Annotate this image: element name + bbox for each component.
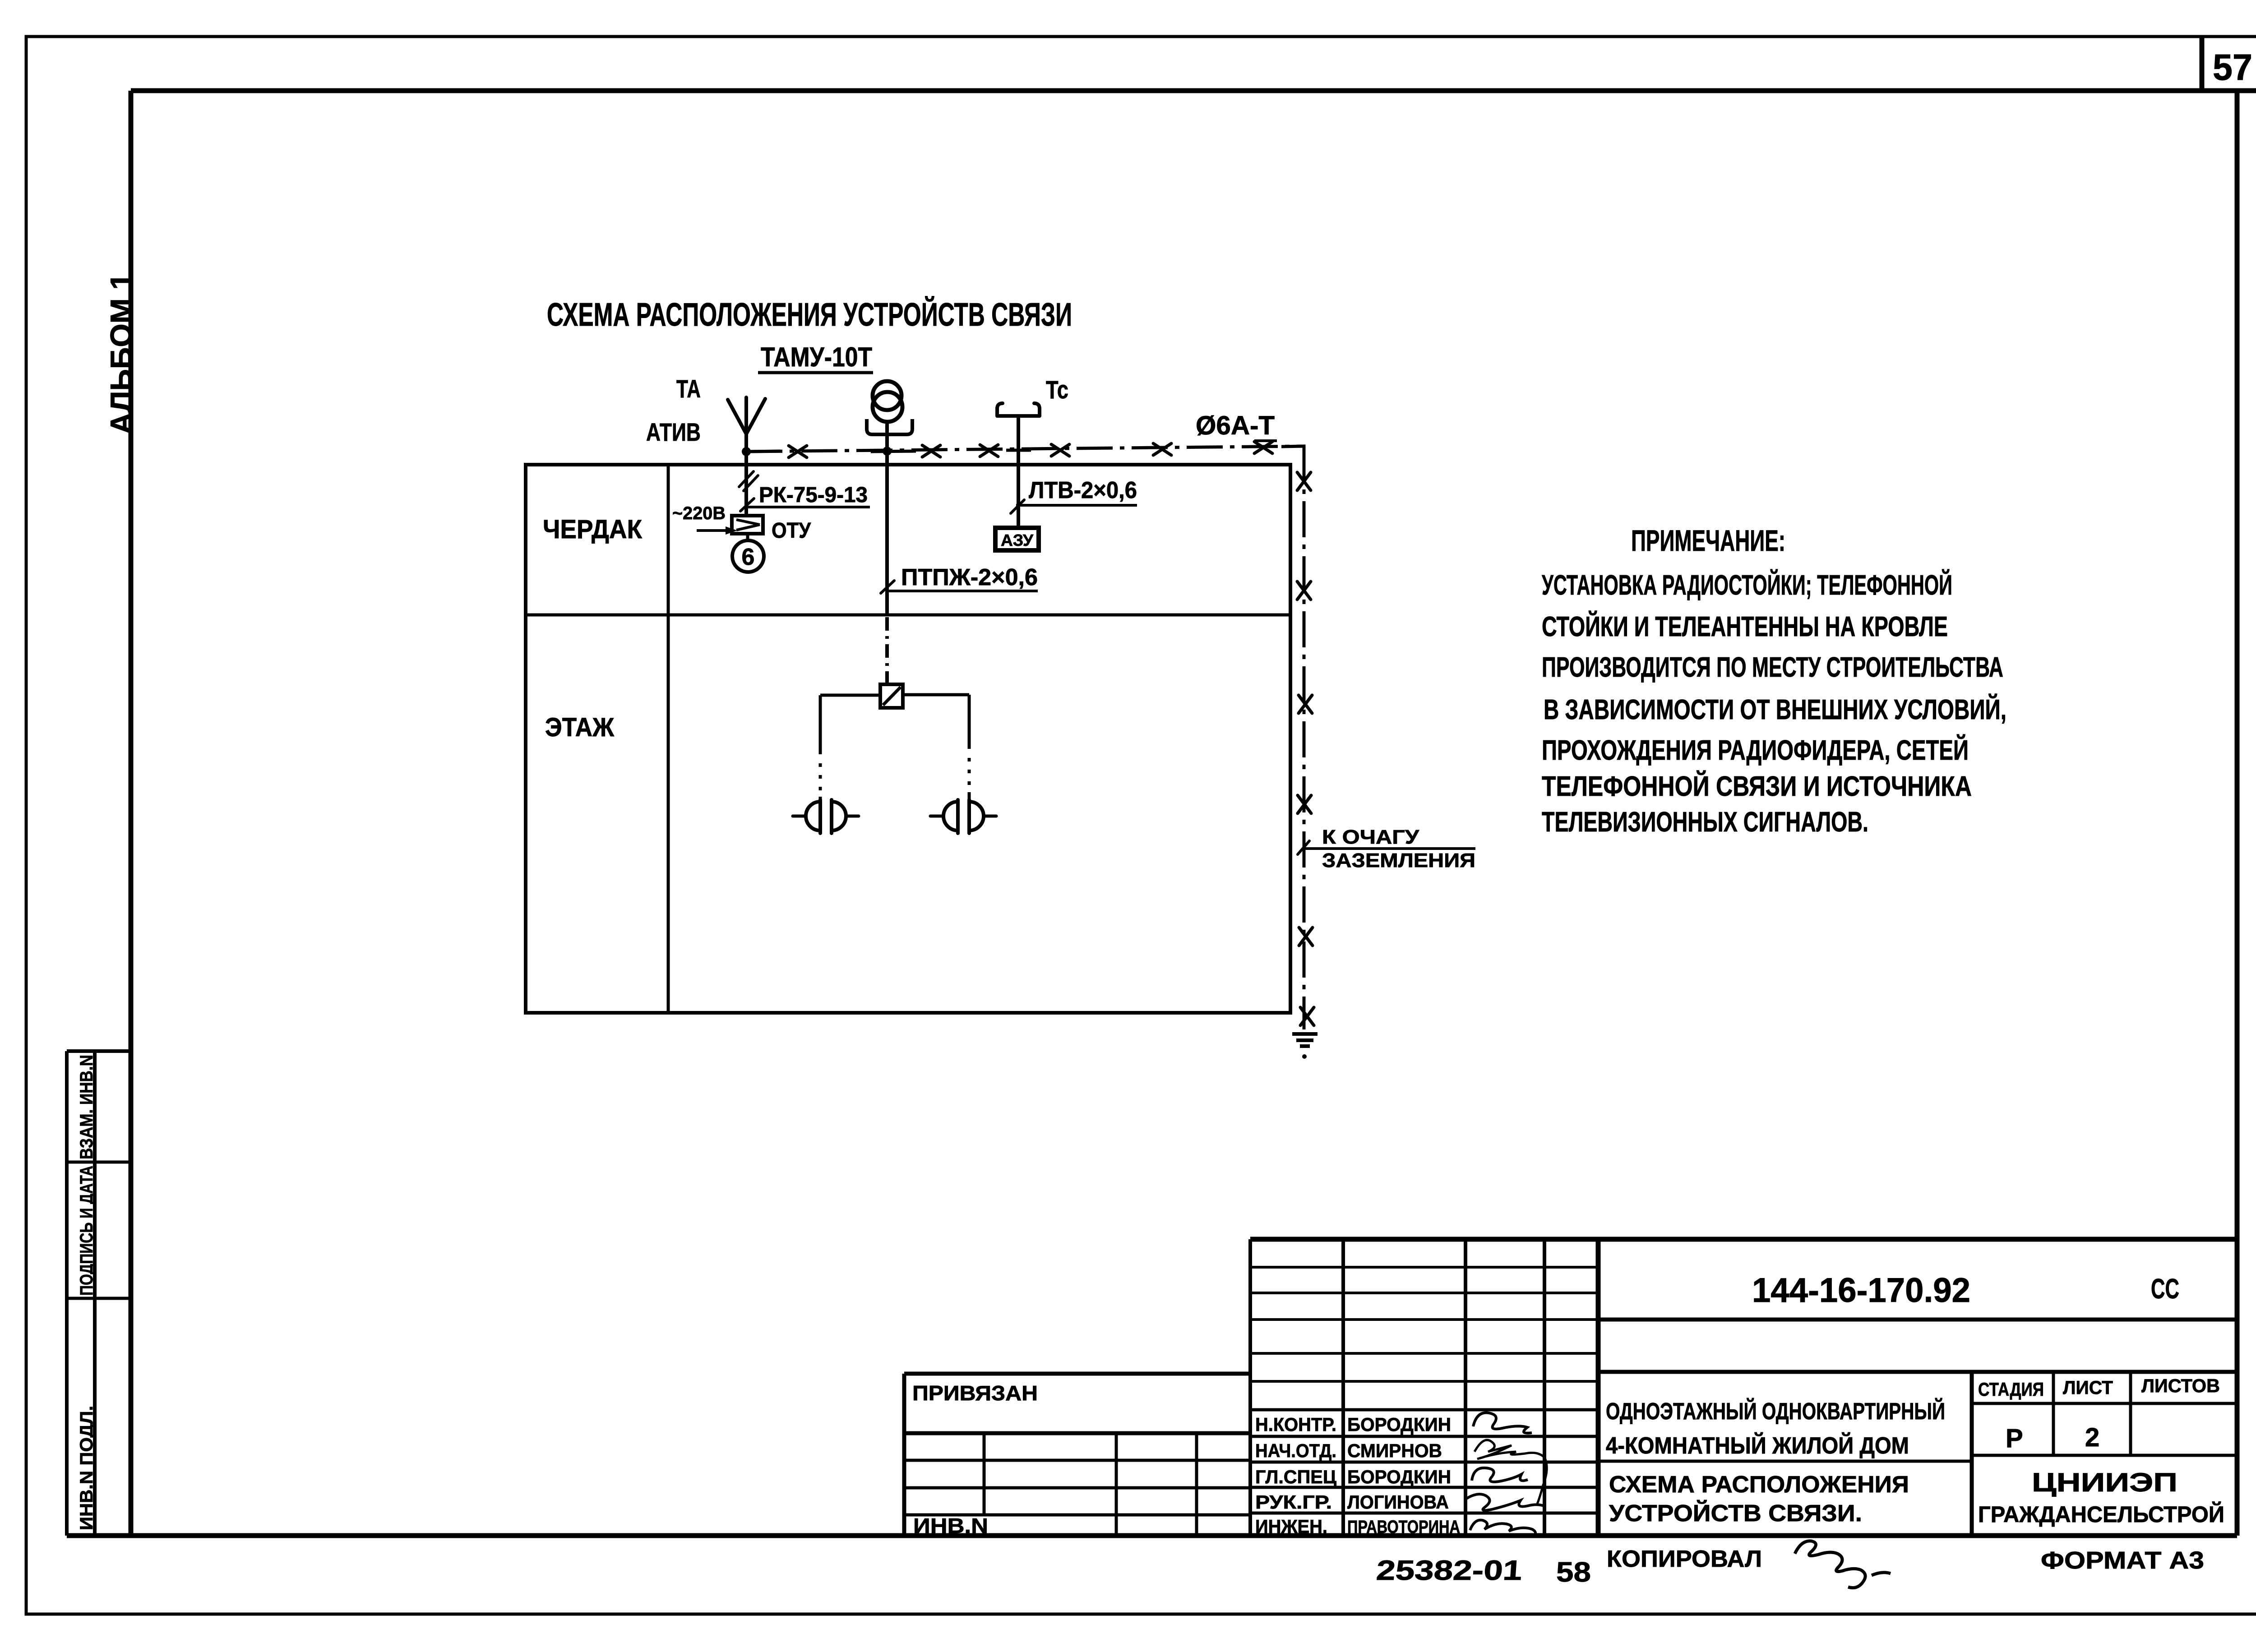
signature row РУК.ГР. ЛОГИНОВА [1255,1491,1546,1513]
TV tap unit ОТУ box [732,516,763,534]
svg-text:4-КОМНАТНЫЙ ЖИЛОЙ ДОМ: 4-КОМНАТНЫЙ ЖИЛОЙ ДОМ [1606,1432,1909,1459]
svg-text:ГРАЖДАНСЕЛЬСТРОЙ: ГРАЖДАНСЕЛЬСТРОЙ [1978,1501,2224,1527]
svg-text:25382-01: 25382-01 [1375,1555,1523,1586]
sheet number box 57 [2202,37,2252,91]
wire right drop to socket [968,695,971,749]
svg-text:ИНЖЕН.: ИНЖЕН. [1255,1516,1327,1537]
signature row ИНЖЕН. ПРАВОТОРИНА [1255,1516,1535,1537]
svg-text:ЧЕРДАК: ЧЕРДАК [543,515,643,544]
TV socket right [930,800,996,833]
svg-text:ИНВ.N: ИНВ.N [913,1514,988,1537]
svg-text:ЭТАЖ: ЭТАЖ [545,713,615,742]
svg-text:58: 58 [1556,1557,1591,1588]
wire ОТУ to position circle [746,534,749,540]
wire left drop to socket [819,695,822,754]
svg-text:144-16-170.92: 144-16-170.92 [1752,1271,1970,1310]
svg-text:57: 57 [2213,47,2252,88]
radio stand ТАМУ-10Т symbol (two circles on bracket) [867,381,912,434]
TV antenna symbol [728,397,765,516]
svg-text:ОТУ: ОТУ [772,519,811,543]
svg-text:СХЕМА РАСПОЛОЖЕНИЯ УСТРОЙСТВ: СХЕМА РАСПОЛОЖЕНИЯ УСТРОЙСТВ СВЯЗИ [547,296,1072,333]
svg-text:ТЕЛЕВИЗИОННЫХ СИГНАЛОВ.: ТЕЛЕВИЗИОННЫХ СИГНАЛОВ. [1542,807,1868,838]
signature row Н.КОНТР. БОРОДКИН [1255,1413,1532,1435]
svg-text:НАЧ.ОТД.: НАЧ.ОТД. [1255,1440,1336,1461]
svg-text:~220В: ~220В [672,503,726,523]
splitter box with diagonal [880,684,903,708]
bus cross marks horizontal [789,442,1272,457]
svg-text:РК-75-9-13: РК-75-9-13 [759,483,868,507]
svg-text:ПРАВОТОРИНА: ПРАВОТОРИНА [1347,1517,1460,1537]
svg-text:Ø6А-Т: Ø6А-Т [1196,411,1275,440]
svg-text:ЛОГИНОВА: ЛОГИНОВА [1347,1491,1449,1513]
svg-text:ТА: ТА [676,374,701,403]
svg-text:РУК.ГР.: РУК.ГР. [1255,1491,1332,1513]
label К ОЧАГУ ЗАЗЕМЛЕНИЯ [1298,826,1475,872]
title block right dividers [1598,1320,2237,1536]
svg-text:АЗУ: АЗУ [1001,531,1034,549]
svg-text:АЛЬБОМ 1: АЛЬБОМ 1 [104,273,139,434]
wire bus solid segments at junctions [746,446,1304,471]
wire radio drop dashed below ceiling [885,617,889,684]
junction node radio/bus [883,447,892,456]
junction node antenna/bus [742,447,751,456]
telephone stand Тс symbol [997,403,1040,416]
svg-text:БОРОДКИН: БОРОДКИН [1347,1466,1451,1487]
svg-text:В ЗАВИСИМОСТИ ОТ ВНЕШНИХ УСЛОВ: В ЗАВИСИМОСТИ ОТ ВНЕШНИХ УСЛОВИЙ, [1544,694,2006,725]
ground symbol [1292,1034,1318,1059]
svg-text:ПРИВЯЗАН: ПРИВЯЗАН [912,1381,1038,1405]
svg-text:ГЛ.СПЕЦ: ГЛ.СПЕЦ [1255,1466,1336,1487]
signature row ГЛ.СПЕЦ БОРОДКИН [1255,1466,1528,1487]
svg-text:СС: СС [2151,1274,2179,1305]
binding table ПРИВЯЗАН [904,1374,1250,1536]
building outline [526,465,1290,1013]
wire telephone stand drop [1017,416,1020,528]
svg-text:ТЕЛЕФОННОЙ СВЯЗИ И ИСТОЧНИКА: ТЕЛЕФОННОЙ СВЯЗИ И ИСТОЧНИКА [1542,771,1972,802]
svg-text:ЛИСТ: ЛИСТ [2063,1377,2113,1398]
svg-text:КОПИРОВАЛ: КОПИРОВАЛ [1607,1546,1762,1572]
coax cable marks on antenna drop [739,471,758,491]
svg-text:ФОРМАТ А3: ФОРМАТ А3 [2041,1547,2204,1574]
svg-text:ПОДПИСЬ И ДАТА: ПОДПИСЬ И ДАТА [77,1166,97,1296]
svg-text:ИНВ.N ПОДЛ.: ИНВ.N ПОДЛ. [77,1406,97,1530]
wire vertical feeder bus [1303,446,1306,1029]
svg-text:2: 2 [2085,1423,2099,1452]
title block grid [1250,1238,2237,1536]
svg-text:СТАДИЯ: СТАДИЯ [1978,1379,2044,1400]
svg-text:ЛИСТОВ: ЛИСТОВ [2141,1375,2220,1396]
svg-text:ЛТВ-2×0,6: ЛТВ-2×0,6 [1029,477,1137,503]
bus cross marks vertical [1297,472,1314,1025]
svg-text:ПТПЖ-2×0,6: ПТПЖ-2×0,6 [901,564,1038,591]
svg-text:Тс: Тс [1046,375,1068,404]
signature row НАЧ.ОТД. СМИРНОВ [1255,1440,1547,1505]
label РК-75-9-13 underlined with tick [740,483,870,511]
copier signature [1795,1541,1891,1588]
svg-text:УСТРОЙСТВ СВЯЗИ.: УСТРОЙСТВ СВЯЗИ. [1609,1500,1862,1527]
svg-text:УСТАНОВКА РАДИОСТОЙКИ; ТЕЛЕФОН: УСТАНОВКА РАДИОСТОЙКИ; ТЕЛЕФОННОЙ [1542,569,1952,601]
label ПТПЖ-2х0,6 underlined with tick [881,564,1038,593]
svg-text:СХЕМА РАСПОЛОЖЕНИЯ: СХЕМА РАСПОЛОЖЕНИЯ [1609,1472,1909,1498]
left margin stamp table [67,1051,131,1536]
svg-text:ЦНИИЭП: ЦНИИЭП [2032,1468,2177,1497]
label φ6А-Т [1196,411,1277,441]
svg-text:ПРИМЕЧАНИЕ:: ПРИМЕЧАНИЕ: [1631,524,1785,557]
position circle 6 [732,540,764,572]
svg-text:ВЗАМ. ИНВ.N: ВЗАМ. ИНВ.N [77,1055,97,1159]
TV socket left [793,800,859,833]
svg-text:6: 6 [742,544,755,570]
svg-text:ПРОИЗВОДИТСЯ ПО МЕСТУ СТРОИТЕЛ: ПРОИЗВОДИТСЯ ПО МЕСТУ СТРОИТЕЛЬСТВА [1542,652,2003,683]
label ТАМУ-10Т underlined [758,342,873,373]
svg-text:Р: Р [2006,1424,2023,1453]
svg-text:ПРОХОЖДЕНИЯ РАДИОФИДЕРА, СЕТЕЙ: ПРОХОЖДЕНИЯ РАДИОФИДЕРА, СЕТЕЙ [1542,734,1969,766]
label ЛТВ-2х0,6 underlined with tick [1011,477,1137,513]
svg-text:ОДНОЭТАЖНЫЙ ОДНОКВАРТИРНЫЙ: ОДНОЭТАЖНЫЙ ОДНОКВАРТИРНЫЙ [1606,1398,1945,1425]
arrow 220V supply [697,526,737,535]
svg-text:СМИРНОВ: СМИРНОВ [1347,1440,1442,1461]
wire horizontal feeder bus [746,446,1304,452]
svg-text:ЗАЗЕМЛЕНИЯ: ЗАЗЕМЛЕНИЯ [1322,849,1475,872]
svg-text:ТАМУ-10Т: ТАМУ-10Т [761,342,872,372]
svg-text:БОРОДКИН: БОРОДКИН [1347,1414,1451,1435]
svg-text:Н.КОНТР.: Н.КОНТР. [1255,1414,1336,1435]
svg-text:АТИВ: АТИВ [646,418,701,446]
wire radio stand drop [885,421,889,615]
subscriber protection unit АЗУ box [995,528,1039,550]
svg-text:СТОЙКИ И ТЕЛЕАНТЕННЫ НА КРОВЛЕ: СТОЙКИ И ТЕЛЕАНТЕННЫ НА КРОВЛЕ [1542,611,1948,642]
svg-text:К ОЧАГУ: К ОЧАГУ [1322,826,1419,848]
wire splitter branches [820,695,969,695]
